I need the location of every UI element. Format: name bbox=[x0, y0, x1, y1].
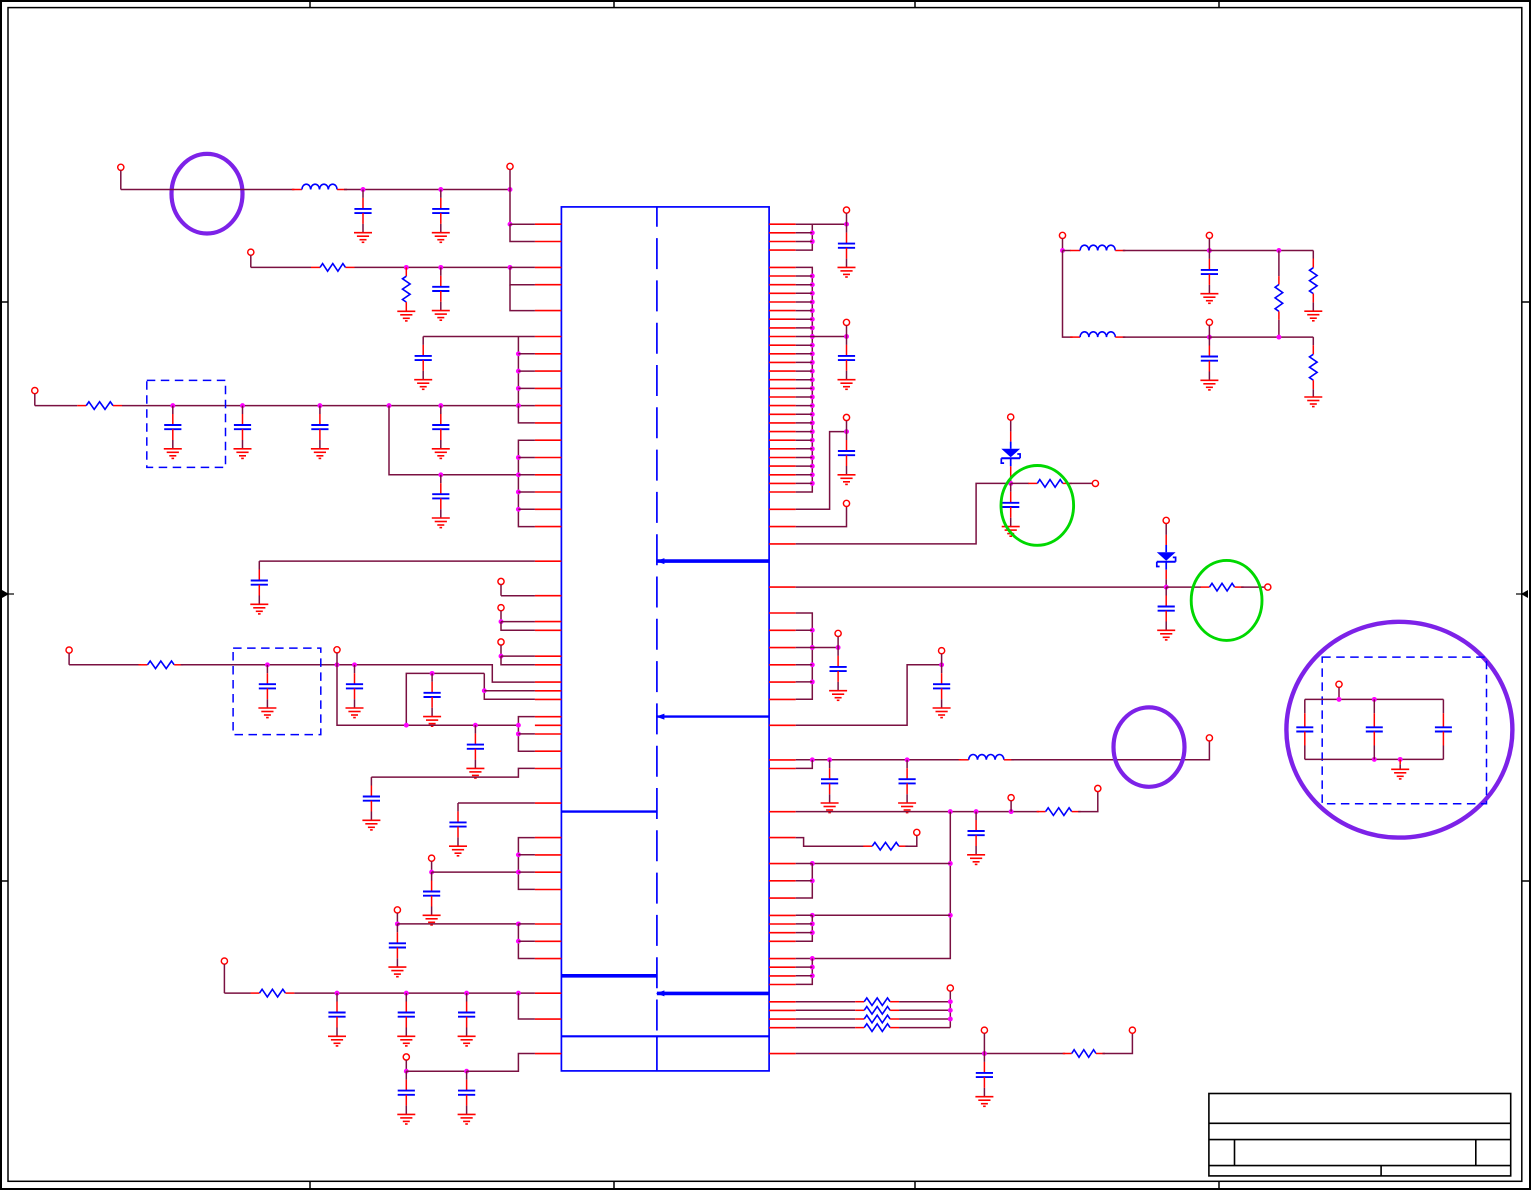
resistor R5 bbox=[251, 989, 295, 997]
pin U1 right pin bbox=[769, 923, 796, 925]
pin U1 right pin bbox=[769, 284, 796, 286]
pin U1 left pin bbox=[535, 336, 562, 338]
capacitor C13 bbox=[467, 725, 484, 759]
highlight circle A bbox=[172, 154, 243, 234]
junction bbox=[810, 334, 815, 339]
wire N17-a bbox=[406, 1070, 466, 1072]
junction bbox=[810, 291, 815, 296]
port P11 bbox=[394, 907, 400, 924]
junction bbox=[1372, 697, 1377, 702]
junction bbox=[438, 472, 443, 477]
wire RN11-b bbox=[812, 863, 950, 865]
resistor R6 bbox=[1028, 480, 1072, 488]
resistor R4 bbox=[139, 661, 184, 669]
pin U1 left pin bbox=[535, 923, 562, 925]
capacitor C35 bbox=[1201, 337, 1218, 371]
pin U1 left pin bbox=[535, 655, 562, 657]
pin U1 right pin bbox=[769, 439, 796, 441]
junction bbox=[810, 679, 815, 684]
pin U1 right pin bbox=[769, 448, 796, 450]
pin U1 right pin bbox=[769, 361, 796, 363]
wire TR-r1b bbox=[1278, 320, 1280, 337]
pin U1 left pin bbox=[535, 508, 562, 510]
wire TR-r3a bbox=[1312, 337, 1314, 345]
capacitor C5 bbox=[164, 406, 181, 440]
pin U1 right pin bbox=[769, 336, 796, 338]
wire RN6-a bbox=[796, 586, 1166, 588]
inductor L1 bbox=[292, 184, 347, 189]
wire RN11-e bbox=[796, 880, 813, 882]
wire RN13-v bbox=[949, 1002, 951, 1028]
pin U1 right pin bbox=[769, 301, 796, 303]
junction bbox=[473, 723, 478, 728]
wire RN12-a bbox=[796, 838, 865, 847]
pin U1 left pin bbox=[535, 698, 562, 700]
wire N16-c bbox=[518, 993, 535, 1019]
resistor RT2 bbox=[1310, 259, 1318, 303]
junction bbox=[810, 360, 815, 365]
wire RN13-1a bbox=[796, 1009, 856, 1011]
ground of C31 bbox=[898, 794, 916, 812]
junction bbox=[516, 731, 521, 736]
pin U1 left pin bbox=[535, 690, 562, 692]
capacitor C16 bbox=[423, 872, 440, 906]
pin U1 right pin bbox=[769, 984, 796, 986]
wire RN9-a bbox=[796, 759, 962, 761]
ground of C1 bbox=[354, 224, 372, 242]
ground R2 bbox=[397, 311, 415, 321]
IC U1 separator bbox=[561, 1035, 769, 1037]
ground of C19 bbox=[397, 1028, 415, 1046]
pin U1 right pin bbox=[769, 612, 796, 614]
wire AVDD-a bbox=[35, 405, 77, 407]
capacitor C32 bbox=[968, 812, 985, 846]
capacitor C6 bbox=[234, 406, 251, 440]
wire N15-c bbox=[518, 924, 535, 959]
wire RN13-3a bbox=[796, 1027, 856, 1029]
pin U1 right pin bbox=[769, 526, 796, 528]
wire N3-a bbox=[423, 336, 535, 338]
wire RN2-p bbox=[796, 396, 813, 398]
ground RT2 bbox=[1304, 311, 1322, 321]
junction bbox=[317, 403, 322, 408]
inductor L2 bbox=[959, 754, 1014, 759]
wire RN10-b bbox=[1078, 792, 1098, 812]
junction bbox=[508, 187, 513, 192]
junction bbox=[810, 377, 815, 382]
capacitor C12 bbox=[424, 673, 441, 707]
junction bbox=[404, 265, 409, 270]
ground of C17 bbox=[388, 958, 406, 976]
wire TR-b bbox=[1209, 250, 1313, 252]
wire VIN1-d bbox=[510, 223, 535, 225]
wire TR-r3b bbox=[1312, 389, 1314, 397]
capacitor C34 bbox=[1201, 251, 1218, 285]
wire RN7-p bbox=[796, 647, 813, 649]
junction bbox=[810, 420, 815, 425]
port P13 bbox=[403, 1054, 409, 1071]
wire RN14-b bbox=[1103, 1034, 1133, 1054]
wire RN7-b bbox=[812, 647, 838, 649]
wire RN4-a bbox=[796, 507, 847, 527]
resistor R1 bbox=[311, 264, 355, 272]
port PR7 bbox=[1206, 735, 1212, 741]
junction bbox=[404, 991, 409, 996]
wire TR-a bbox=[1123, 250, 1210, 252]
capacitor C11 bbox=[346, 665, 363, 699]
highlight circle B bbox=[1114, 707, 1185, 786]
pin U1 right pin bbox=[769, 940, 796, 942]
wire N15-a bbox=[397, 923, 518, 925]
wire RN2-p bbox=[796, 379, 813, 381]
pin U1 right pin bbox=[769, 353, 796, 355]
wire N12-a bbox=[371, 768, 535, 777]
pin U1 right pin bbox=[769, 310, 796, 312]
capacitor C7 bbox=[311, 406, 328, 440]
wire RN11-d bbox=[796, 864, 813, 899]
port PR1 bbox=[843, 207, 849, 224]
wire RN2-p bbox=[796, 275, 813, 277]
pin U1 left pin bbox=[535, 871, 562, 873]
wire RN11-j bbox=[796, 932, 813, 934]
pin U1 right pin bbox=[769, 431, 796, 433]
pin U1 right pin bbox=[769, 249, 796, 251]
pin U1 left pin bbox=[535, 1053, 562, 1055]
wire N7-a bbox=[501, 595, 535, 597]
wire RN2-p bbox=[796, 448, 813, 450]
capacitor C30 bbox=[821, 760, 838, 794]
pin U1 right pin bbox=[769, 811, 796, 813]
pin U1 right pin bbox=[769, 491, 796, 493]
junction bbox=[516, 921, 521, 926]
junction bbox=[1276, 248, 1281, 253]
ground of C15 bbox=[449, 837, 467, 855]
pin U1 right pin bbox=[769, 698, 796, 700]
pin U1 left pin bbox=[535, 491, 562, 493]
ground of C25 bbox=[838, 466, 856, 484]
wire RN2-p bbox=[796, 327, 813, 329]
pin U1 right pin bbox=[769, 1053, 796, 1055]
pin U1 right pin bbox=[769, 914, 796, 916]
junction bbox=[516, 351, 521, 356]
pin U1 right pin bbox=[769, 1018, 796, 1020]
wire VIN1-e bbox=[510, 224, 535, 241]
capacitor C20 bbox=[458, 993, 475, 1027]
ground of C8 bbox=[432, 440, 450, 458]
wire VIN2-c bbox=[510, 266, 535, 268]
wire VIN1-c bbox=[509, 190, 511, 225]
highlight circle G1 bbox=[1001, 466, 1074, 546]
pin U1 right pin bbox=[769, 759, 796, 761]
pin U1 right pin bbox=[769, 405, 796, 407]
pin U1 right pin bbox=[769, 266, 796, 268]
junction bbox=[810, 325, 815, 330]
pin U1 left pin bbox=[535, 310, 562, 312]
wire RN1-d bbox=[812, 223, 846, 225]
wire RN11-h bbox=[796, 915, 813, 941]
port PR3 bbox=[843, 414, 849, 431]
junction bbox=[1337, 697, 1342, 702]
wire RN13-2b bbox=[899, 1018, 950, 1020]
ground of C10 bbox=[258, 699, 276, 717]
pin U1 left pin bbox=[535, 958, 562, 960]
junction bbox=[352, 662, 357, 667]
pin U1 right pin bbox=[769, 543, 796, 545]
resistor R10 bbox=[855, 998, 899, 1006]
junction bbox=[810, 239, 815, 244]
wire RN1-c bbox=[796, 241, 813, 243]
pin U1 left pin bbox=[535, 241, 562, 243]
junction bbox=[516, 490, 521, 495]
IC U1 separator bbox=[656, 714, 769, 720]
ground of C24 bbox=[838, 371, 856, 389]
ground of C4 bbox=[414, 371, 432, 389]
junction bbox=[335, 991, 340, 996]
zener diode D1 bbox=[1001, 420, 1020, 483]
wire N13-a bbox=[458, 802, 535, 804]
pin U1 left pin bbox=[535, 474, 562, 476]
wire N11-b bbox=[484, 673, 535, 699]
wire VDD2-a bbox=[69, 664, 141, 666]
junction bbox=[438, 187, 443, 192]
wire RN11-m bbox=[796, 975, 813, 977]
wire RN11-l bbox=[796, 966, 813, 968]
wire N14-d bbox=[518, 871, 535, 873]
wire RN2-p bbox=[796, 301, 813, 303]
ground of C12 bbox=[423, 708, 441, 726]
wire RN2-p bbox=[796, 310, 813, 312]
wire RN5-r bbox=[1011, 482, 1029, 484]
port PR4 bbox=[843, 500, 849, 506]
wire TR-0 bbox=[1063, 250, 1071, 252]
wire RN2-p bbox=[796, 387, 813, 389]
pin U1 right pin bbox=[769, 1001, 796, 1003]
port PR8 bbox=[1008, 795, 1014, 812]
junction bbox=[948, 861, 953, 866]
capacitor C36 bbox=[1296, 699, 1313, 759]
ground of C16 bbox=[423, 907, 441, 925]
capacitor C9 bbox=[251, 561, 268, 595]
pin U1 left pin bbox=[535, 422, 562, 424]
pin U1 right pin bbox=[769, 975, 796, 977]
capacitor C3 bbox=[432, 267, 449, 301]
wire RN2-p bbox=[796, 482, 813, 484]
port P3 bbox=[248, 249, 254, 267]
junction bbox=[1372, 757, 1377, 762]
junction bbox=[810, 274, 815, 279]
port PR12 bbox=[981, 1027, 987, 1053]
pin U1 left pin bbox=[535, 629, 562, 631]
wire RN2-p bbox=[796, 344, 813, 346]
wire N14-c bbox=[518, 854, 535, 856]
wire RN7-p bbox=[796, 681, 813, 683]
junction bbox=[844, 222, 849, 227]
pin U1 left pin bbox=[535, 439, 562, 441]
junction bbox=[810, 472, 815, 477]
junction bbox=[1207, 248, 1212, 253]
capacitor C10 bbox=[259, 665, 276, 699]
capacitor C26 bbox=[1002, 483, 1019, 517]
resistor RT1 bbox=[1275, 276, 1283, 320]
port PZ1 bbox=[1008, 414, 1014, 420]
pin U1 right pin bbox=[769, 474, 796, 476]
port PR5 bbox=[835, 630, 841, 647]
wire RN1-a bbox=[796, 224, 813, 250]
junction bbox=[810, 230, 815, 235]
wire VIN2-e bbox=[510, 285, 535, 311]
junction bbox=[810, 757, 815, 762]
capacitor C24 bbox=[838, 337, 855, 371]
junction bbox=[810, 973, 815, 978]
junction bbox=[170, 403, 175, 408]
IC U1 separator bbox=[561, 974, 657, 978]
junction bbox=[810, 386, 815, 391]
pin U1 left pin bbox=[535, 940, 562, 942]
highlight circle C bbox=[1286, 622, 1512, 838]
wire RN13-2a bbox=[796, 1018, 856, 1020]
capacitor C19 bbox=[398, 993, 415, 1027]
wire RN2-p bbox=[796, 422, 813, 424]
port PT1 bbox=[1059, 232, 1065, 250]
wire TR-r2b bbox=[1312, 302, 1314, 311]
junction bbox=[516, 386, 521, 391]
junction bbox=[905, 757, 910, 762]
junction bbox=[844, 334, 849, 339]
capacitor C4 bbox=[415, 337, 432, 371]
junction bbox=[974, 809, 979, 814]
wire RN8-a bbox=[796, 665, 942, 725]
junction bbox=[810, 921, 815, 926]
junction bbox=[810, 300, 815, 305]
pin U1 left pin bbox=[535, 405, 562, 407]
wire N3-b bbox=[517, 337, 519, 406]
junction bbox=[836, 645, 841, 650]
junction bbox=[810, 395, 815, 400]
junction bbox=[810, 861, 815, 866]
ground of C23 bbox=[838, 259, 856, 277]
wire RN2-p bbox=[796, 361, 813, 363]
pin U1 right pin bbox=[769, 837, 796, 839]
port PZ2 bbox=[1092, 480, 1098, 486]
capacitor C21 bbox=[398, 1071, 415, 1105]
wire VIN1-a bbox=[121, 189, 295, 191]
capacitor C14 bbox=[363, 777, 380, 811]
wire TR-d bbox=[1123, 336, 1210, 338]
pin U1 left pin bbox=[535, 621, 562, 623]
ground RT3 bbox=[1304, 397, 1322, 407]
pin U1 left pin bbox=[535, 750, 562, 752]
wire RN9-c bbox=[1011, 741, 1209, 760]
junction bbox=[948, 999, 953, 1004]
wire N11-c bbox=[484, 690, 535, 692]
junction bbox=[404, 1069, 409, 1074]
capacitor C33 bbox=[976, 1054, 993, 1088]
pin U1 right pin bbox=[769, 457, 796, 459]
resistor R8 bbox=[1037, 808, 1081, 816]
junction bbox=[404, 723, 409, 728]
pin U1 right pin bbox=[769, 681, 796, 683]
pin U1 right pin bbox=[769, 932, 796, 934]
junction bbox=[810, 913, 815, 918]
pin U1 right pin bbox=[769, 508, 796, 510]
junction bbox=[516, 507, 521, 512]
wire N14-a bbox=[432, 871, 519, 873]
port PR9 bbox=[1095, 785, 1101, 791]
dashed box B2 bbox=[233, 648, 321, 735]
pin U1 left pin bbox=[535, 457, 562, 459]
pin U1 right pin bbox=[769, 465, 796, 467]
ground of C33 bbox=[975, 1088, 993, 1106]
junction bbox=[516, 369, 521, 374]
pin U1 left pin bbox=[535, 992, 562, 994]
wire N5-f bbox=[518, 508, 535, 510]
capacitor C2 bbox=[432, 190, 449, 224]
pin U1 left pin bbox=[535, 595, 562, 597]
IC U1 separator bbox=[656, 990, 769, 996]
junction bbox=[429, 870, 434, 875]
pin U1 left pin bbox=[535, 526, 562, 528]
junction bbox=[948, 809, 953, 814]
wire N15-d bbox=[518, 940, 535, 942]
ground of C11 bbox=[346, 699, 364, 717]
pin U1 left pin bbox=[535, 560, 562, 562]
ground of C22 bbox=[458, 1106, 476, 1124]
pin U1 left pin bbox=[535, 724, 562, 726]
junction bbox=[430, 671, 435, 676]
junction bbox=[438, 265, 443, 270]
wire RN2-p bbox=[796, 465, 813, 467]
wire N5-e bbox=[518, 491, 535, 493]
capacitor C8b bbox=[432, 475, 449, 509]
junction bbox=[499, 654, 504, 659]
wire TR-r2a bbox=[1312, 251, 1314, 259]
capacitor C1 bbox=[354, 190, 371, 224]
wire RN7-p bbox=[796, 629, 813, 631]
port P4 bbox=[32, 388, 38, 406]
resistor R3 bbox=[77, 402, 122, 410]
IC U1 body bbox=[561, 207, 769, 1071]
port P2 bbox=[507, 163, 513, 189]
wire RN2-p bbox=[796, 336, 813, 338]
pin U1 right pin bbox=[769, 880, 796, 882]
IC U1 separator bbox=[561, 810, 657, 812]
capacitor C17 bbox=[389, 924, 406, 958]
pin U1 right pin bbox=[769, 318, 796, 320]
pin U1 right pin bbox=[769, 275, 796, 277]
junction bbox=[810, 446, 815, 451]
wire VIN1-b bbox=[344, 189, 510, 191]
pin U1 left pin bbox=[535, 681, 562, 683]
pin U1 right pin bbox=[769, 863, 796, 865]
junction bbox=[516, 455, 521, 460]
junction bbox=[1009, 809, 1014, 814]
wire VDD2-b bbox=[181, 665, 535, 682]
junction bbox=[982, 1051, 987, 1056]
junction bbox=[810, 965, 815, 970]
pin U1 left pin bbox=[535, 854, 562, 856]
wire N11-a bbox=[406, 673, 484, 725]
port P6 bbox=[498, 605, 504, 622]
junction bbox=[810, 351, 815, 356]
ground of C34 bbox=[1200, 285, 1218, 303]
port PR10 bbox=[914, 829, 920, 835]
pin U1 right pin bbox=[769, 396, 796, 398]
junction bbox=[810, 308, 815, 313]
ground of C14 bbox=[362, 812, 380, 830]
junction bbox=[516, 472, 521, 477]
wire RN10-a bbox=[796, 811, 1039, 813]
wire RN11-g bbox=[796, 914, 813, 916]
